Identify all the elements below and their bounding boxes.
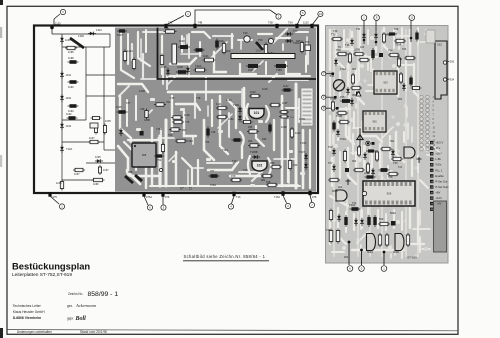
- component 1151: [90, 123, 98, 128]
- resistor 392b: [388, 54, 400, 56]
- capacitor 949A: [268, 38, 273, 43]
- svg-text:+8V: +8V: [435, 190, 440, 194]
- svg-text:1005: 1005: [105, 119, 111, 123]
- diode T07: [333, 164, 335, 172]
- svg-text:935: 935: [248, 125, 253, 129]
- resistor 342b: [338, 121, 350, 123]
- capacitor 1180: [104, 124, 106, 135]
- transistor T10A: [61, 145, 63, 153]
- svg-text:Stand vom 20.6.96: Stand vom 20.6.96: [80, 330, 107, 334]
- svg-text:T5B: T5B: [268, 21, 273, 25]
- diode 336: [335, 58, 337, 66]
- svg-text:358: 358: [352, 94, 357, 97]
- svg-text:7159: 7159: [276, 68, 282, 72]
- resistor 960: [223, 42, 225, 55]
- svg-text:L-BL: L-BL: [435, 157, 441, 161]
- resistor 1204: [124, 50, 126, 63]
- svg-text:T64: T64: [402, 48, 407, 51]
- callout 2 top: [195, 10, 277, 24]
- resistor 947 vertical: [172, 44, 177, 64]
- svg-text:751: 751: [166, 100, 171, 104]
- resistor 1203 long bar: [231, 54, 295, 59]
- capacitor 757: [209, 175, 220, 177]
- callout 1 top: [166, 16, 184, 26]
- svg-text:1129: 1129: [262, 87, 268, 91]
- resistor 997: [169, 129, 181, 131]
- svg-text:1196: 1196: [93, 182, 99, 186]
- connector shroud lower: [434, 201, 447, 252]
- svg-text:1191: 1191: [66, 73, 72, 77]
- diode 1195: [95, 160, 103, 162]
- resistor T50 vertical: [383, 32, 385, 44]
- resistor 379 vertical: [379, 233, 381, 247]
- pad field ST-919: [330, 34, 400, 250]
- svg-text:7161: 7161: [222, 148, 228, 152]
- svg-text:V: V: [62, 10, 64, 14]
- resistor 1134: [242, 121, 253, 123]
- wire traces ST-919: [330, 28, 434, 252]
- resistor 1196A: [92, 179, 105, 181]
- svg-text:T03: T03: [328, 145, 333, 149]
- svg-text:T105B: T105B: [250, 150, 258, 154]
- terminal 334: [443, 78, 446, 81]
- svg-text:P-Ser.Out: P-Ser.Out: [435, 179, 447, 183]
- resistor 1102: [67, 117, 78, 119]
- svg-text:1132: 1132: [226, 98, 232, 102]
- resistor 1205: [133, 58, 135, 71]
- svg-text:+8V: +8V: [437, 203, 442, 206]
- resistor 1131: [216, 107, 228, 109]
- svg-text:T100: T100: [233, 103, 239, 107]
- svg-text:906A: 906A: [332, 190, 338, 193]
- svg-text:Technisches Leiter: Technisches Leiter: [13, 304, 42, 308]
- svg-text:1103: 1103: [295, 131, 301, 135]
- svg-text:1131: 1131: [216, 102, 222, 106]
- resistor 979: [230, 179, 242, 181]
- svg-text:Ackermann: Ackermann: [75, 303, 97, 308]
- callout 6 right bottom: [348, 242, 350, 265]
- transistor T40: [244, 36, 250, 42]
- resistor 385b: [380, 148, 392, 150]
- component 903A: [140, 131, 144, 136]
- diode 903: [187, 66, 189, 74]
- scattered labels ST-919: [330, 28, 407, 259]
- svg-text:+12V: +12V: [435, 196, 442, 200]
- component 347 sq: [345, 168, 349, 172]
- svg-text:P-Ser.Outc: P-Ser.Outc: [435, 185, 449, 189]
- svg-text:T10A: T10A: [66, 147, 72, 151]
- resistor 980: [270, 166, 282, 168]
- diode T36: [351, 38, 353, 46]
- callout 8 right top: [375, 21, 377, 26]
- IC 906: [363, 111, 386, 132]
- edge registration mark middle: [0, 27, 2, 38]
- capacitor 375 vertical: [374, 215, 376, 227]
- wire vertical bus left strip: [61, 34, 63, 190]
- svg-text:1197: 1197: [103, 168, 109, 172]
- junction 748: [164, 24, 167, 28]
- circled square test point: [366, 141, 370, 145]
- callout 7 gap: [326, 73, 332, 75]
- edge registration mark lower: [0, 155, 2, 167]
- svg-text:10: 10: [319, 12, 322, 16]
- svg-text:1204: 1204: [127, 49, 133, 53]
- capacitor 416 vertical: [416, 31, 418, 42]
- triangle 358w: [356, 92, 361, 97]
- capacitor 369 vertical: [368, 215, 370, 227]
- capacitor 910: [216, 39, 218, 50]
- junction 978: [308, 191, 311, 195]
- svg-text:975A: 975A: [210, 183, 216, 187]
- svg-text:T16: T16: [243, 168, 248, 172]
- board ST-919 copper pour: [326, 26, 449, 264]
- resistor 1198: [68, 61, 79, 63]
- svg-text:T20: T20: [393, 161, 398, 165]
- diode T108: [305, 162, 307, 170]
- svg-text:1136: 1136: [184, 113, 190, 117]
- resistor 1196: [65, 47, 77, 49]
- IC 908: [132, 143, 156, 167]
- svg-text:1208: 1208: [139, 89, 145, 93]
- callout 11 right top: [410, 21, 412, 26]
- edge registration mark bottom: [0, 328, 3, 338]
- svg-text:399: 399: [398, 58, 403, 61]
- diode 1100: [61, 36, 63, 44]
- diode 356b: [355, 218, 357, 226]
- diode 1192: [61, 94, 63, 102]
- svg-text:364: 364: [352, 160, 357, 163]
- callout 1b right bottom: [383, 252, 385, 265]
- svg-text:904B: 904B: [393, 251, 399, 254]
- callout 10 top: [312, 17, 319, 26]
- callout 6 bottom: [144, 196, 148, 205]
- svg-text:1190: 1190: [68, 85, 74, 89]
- svg-text:748: 748: [196, 96, 201, 100]
- resistor T20: [391, 158, 403, 160]
- resistor T60 diagonal: [256, 42, 263, 50]
- diode 352b: [351, 98, 353, 106]
- svg-text:gez.: gez.: [67, 304, 73, 308]
- svg-text:352: 352: [352, 68, 357, 71]
- sub-board divider ST-752: [157, 28, 159, 80]
- callout V top: [53, 19, 55, 26]
- svg-text:910: 910: [219, 39, 224, 43]
- component 381: [379, 53, 383, 57]
- svg-text:Klaus Heusler GmbH: Klaus Heusler GmbH: [13, 310, 45, 314]
- diode 338b: [337, 129, 339, 137]
- resistor 751: [154, 104, 166, 106]
- svg-text:908: 908: [142, 153, 147, 157]
- svg-text:1006: 1006: [116, 105, 122, 109]
- resistor 978A: [266, 184, 278, 186]
- svg-text:1120: 1120: [303, 21, 309, 25]
- terminal 265: [443, 61, 446, 64]
- diode 392c: [392, 149, 394, 157]
- svg-text:1103: 1103: [66, 124, 72, 128]
- resistor 746 vertical: [146, 109, 148, 120]
- IC 909 large: [363, 181, 415, 206]
- component 996A diagonal: [135, 175, 142, 181]
- svg-text:-8 V: -8 V: [435, 146, 440, 150]
- svg-text:903: 903: [383, 81, 388, 85]
- scattered pads and labels ST-752: [126, 87, 306, 187]
- component T05: [340, 100, 352, 102]
- transistor T102: [252, 161, 267, 171]
- resistor 103B: [353, 53, 365, 55]
- capacitor 392: [387, 33, 397, 35]
- resistor 1107: [88, 141, 100, 143]
- svg-text:+8,5 V: +8,5 V: [435, 141, 443, 145]
- svg-text:D-6806 Viernheim: D-6806 Viernheim: [13, 316, 41, 320]
- junction T4B top: [193, 24, 196, 28]
- svg-text:746: 746: [140, 107, 145, 111]
- svg-text:265: 265: [450, 60, 455, 64]
- component 703: [279, 116, 289, 118]
- capacitor 1164: [194, 49, 205, 51]
- svg-text:Leiterplatten ST-752,ST-919: Leiterplatten ST-752,ST-919: [12, 272, 72, 278]
- resistor 367 vertical: [367, 162, 369, 174]
- resistor 362b: [358, 59, 370, 61]
- svg-text:T49: T49: [394, 28, 399, 31]
- diode T107: [305, 153, 307, 161]
- svg-text:T5A: T5A: [288, 21, 293, 25]
- resistor T64b: [404, 57, 416, 59]
- transistor T23: [404, 147, 415, 158]
- svg-text:1127: 1127: [283, 84, 289, 88]
- svg-text:7162: 7162: [187, 139, 193, 143]
- svg-text:ST-919: ST-919: [407, 256, 417, 260]
- svg-text:1133: 1133: [250, 90, 256, 94]
- resistor 332 row: [328, 179, 340, 181]
- svg-text:1137: 1137: [282, 101, 288, 105]
- svg-text:T08: T08: [388, 175, 393, 179]
- svg-text:T162: T162: [274, 195, 280, 199]
- pad numbers column: [433, 97, 436, 151]
- svg-text:979: 979: [231, 174, 236, 178]
- resistor T0A: [336, 53, 348, 55]
- resistor 377 vertical: [376, 150, 378, 162]
- board ST-752 outline: [34, 26, 318, 194]
- resistor 1136: [171, 117, 183, 119]
- callout 1 bottom: [50, 196, 59, 204]
- svg-text:1167: 1167: [74, 172, 80, 176]
- resistor 949 vertical: [301, 41, 303, 54]
- svg-text:1108: 1108: [177, 65, 183, 69]
- svg-text:392: 392: [390, 140, 395, 143]
- svg-text:T05: T05: [340, 95, 345, 99]
- resistor 399 vertical: [398, 56, 400, 68]
- svg-text:1195: 1195: [95, 155, 101, 159]
- capacitor 410 vertical: [410, 76, 412, 87]
- resistor 333 vertical: [332, 100, 334, 112]
- diode 1203A: [120, 128, 122, 136]
- svg-text:T60: T60: [258, 38, 263, 42]
- pad 1012: [426, 30, 435, 43]
- svg-text:932: 932: [293, 163, 298, 167]
- svg-text:T24: T24: [352, 202, 357, 205]
- svg-text:103: 103: [360, 46, 365, 49]
- resistor 416b: [411, 87, 422, 89]
- resistor 1300 diagonal: [70, 38, 84, 48]
- component 1006: [117, 111, 128, 113]
- capacitor 750: [305, 45, 311, 51]
- capacitor 752: [154, 155, 164, 157]
- svg-text:754: 754: [205, 140, 210, 144]
- svg-text:1192: 1192: [66, 96, 72, 100]
- svg-text:1001: 1001: [437, 45, 443, 47]
- resistor 932 vertical: [289, 159, 291, 171]
- svg-text:334: 334: [450, 78, 455, 82]
- resistor 344 vertical: [344, 150, 346, 163]
- callout 5 top: [297, 16, 302, 26]
- svg-text:11: 11: [410, 16, 413, 20]
- svg-text:Enable: Enable: [435, 174, 444, 178]
- svg-text:T50A: T50A: [395, 43, 401, 47]
- svg-text:776: 776: [185, 120, 190, 124]
- svg-text:102: 102: [257, 164, 263, 168]
- svg-text:1163: 1163: [179, 39, 185, 43]
- resistor T4B vertical: [161, 54, 163, 67]
- callout 0 right bottom: [361, 250, 363, 265]
- test triangle 905: [357, 135, 363, 140]
- diode T100: [239, 106, 241, 114]
- capacitor 370: [366, 150, 376, 152]
- wire branch lines left strip: [51, 28, 53, 35]
- svg-text:T31A: T31A: [340, 68, 346, 71]
- callout 7 bottom: [310, 195, 312, 202]
- svg-text:1008: 1008: [144, 118, 150, 122]
- capacitor 1140: [95, 124, 97, 135]
- wire traces ST-752 pour: [118, 30, 310, 188]
- resistor 1130: [216, 116, 228, 118]
- diode T49: [285, 33, 293, 35]
- pin header 16-26: [430, 141, 449, 212]
- svg-text:T64: T64: [388, 49, 393, 53]
- svg-text:1105: 1105: [56, 181, 62, 185]
- diode T49A: [285, 40, 293, 42]
- svg-text:1166: 1166: [248, 68, 254, 72]
- component 1163: [178, 46, 190, 48]
- wire texture traces ST-919: [333, 29, 442, 259]
- junction lead callout 11 topboard: [363, 26, 365, 44]
- svg-text:T36: T36: [345, 43, 350, 47]
- svg-text:753: 753: [168, 133, 173, 137]
- junction T5B top: [275, 24, 278, 28]
- svg-text:509A: 509A: [390, 212, 396, 215]
- svg-text:934: 934: [248, 139, 253, 143]
- transistor 906D: [336, 190, 347, 201]
- resistor T44A: [194, 69, 207, 71]
- callout 2 bottom: [283, 196, 287, 204]
- component 996 diagonal: [125, 176, 133, 183]
- svg-text:1007: 1007: [117, 33, 123, 37]
- svg-text:T07: T07: [328, 161, 333, 165]
- svg-text:T49: T49: [293, 29, 298, 33]
- capacitor 756: [159, 168, 162, 171]
- component 358 sq: [356, 92, 360, 96]
- resistor T08: [387, 173, 399, 175]
- svg-text:1203: 1203: [255, 50, 261, 53]
- resistor 352 vertical: [352, 73, 354, 85]
- svg-text:1300: 1300: [78, 34, 84, 38]
- resistor T25 vertical: [330, 229, 332, 244]
- resistor 1101: [91, 117, 102, 119]
- diode T105B: [252, 156, 260, 158]
- resistor 934: [248, 145, 260, 147]
- resistor 1103A vertical: [291, 127, 293, 139]
- svg-text:960: 960: [226, 49, 231, 53]
- svg-text:1141: 1141: [203, 54, 209, 58]
- diode 362b2: [361, 218, 363, 226]
- svg-text:T03A: T03A: [340, 138, 346, 141]
- resistor 1137: [269, 104, 281, 106]
- svg-text:975A: 975A: [146, 195, 152, 199]
- svg-text:Schaltbild siehe Zeichn.Nr.: Schaltbild siehe Zeichn.Nr. 858/84 - 1: [184, 254, 266, 259]
- svg-text:PLL 1: PLL 1: [435, 168, 442, 172]
- svg-text:757: 757: [210, 169, 215, 173]
- svg-text:1138: 1138: [281, 125, 287, 129]
- svg-text:745: 745: [170, 96, 175, 100]
- svg-text:978: 978: [312, 195, 317, 199]
- junction 1120 top: [310, 24, 313, 28]
- svg-text:746A: 746A: [156, 127, 162, 131]
- svg-text:976: 976: [165, 195, 170, 199]
- resistor 359 row: [353, 169, 365, 171]
- wire texture traces ST-752: [119, 29, 308, 188]
- svg-text:Zeichn.Nr.:: Zeichn.Nr.:: [68, 292, 84, 296]
- capacitor 334 vertical: [333, 121, 335, 132]
- capacitor 345 vertical: [345, 215, 347, 227]
- callout 4 bottom: [232, 196, 235, 204]
- svg-text:750: 750: [305, 40, 310, 44]
- callout 2 gap: [326, 96, 335, 98]
- svg-text:745: 745: [211, 130, 216, 134]
- svg-text:T04B: T04B: [336, 114, 342, 118]
- component 393 sq: [391, 221, 396, 226]
- svg-text:T107: T107: [299, 150, 305, 154]
- svg-text:+26V: +26V: [435, 152, 442, 156]
- junction T16B: [232, 192, 235, 196]
- resistor 981: [261, 175, 273, 177]
- resistor 1105: [61, 180, 63, 191]
- junction 976: [161, 192, 164, 196]
- diode 373b: [372, 168, 374, 176]
- svg-text:858/99 - 1: 858/99 - 1: [88, 291, 119, 298]
- resistor T26 vertical: [337, 229, 339, 244]
- svg-text:T161: T161: [232, 159, 238, 163]
- resistor 935: [247, 131, 259, 133]
- resistor T04B: [336, 112, 348, 114]
- long trace channels ST-919: [334, 30, 418, 256]
- svg-text:gepr.: gepr.: [67, 317, 74, 321]
- capacitor 346 cross: [347, 179, 349, 185]
- diode 364b: [364, 152, 366, 160]
- svg-text:T05A: T05A: [330, 98, 336, 101]
- svg-text:1130: 1130: [228, 117, 234, 121]
- svg-text:404: 404: [398, 98, 403, 101]
- svg-text:997: 997: [182, 128, 187, 132]
- callout 1 right top: [363, 21, 365, 26]
- component 745: [207, 127, 209, 138]
- capacitor 420 cross: [418, 157, 420, 163]
- component 1004 above IC909: [365, 176, 376, 178]
- resistor 1167: [73, 169, 85, 171]
- resistor T30: [331, 38, 343, 40]
- resistor 386 vertical: [386, 233, 388, 247]
- svg-text:T16: T16: [236, 195, 241, 199]
- svg-text:T106: T106: [300, 141, 306, 145]
- callout 9 gap: [326, 107, 337, 109]
